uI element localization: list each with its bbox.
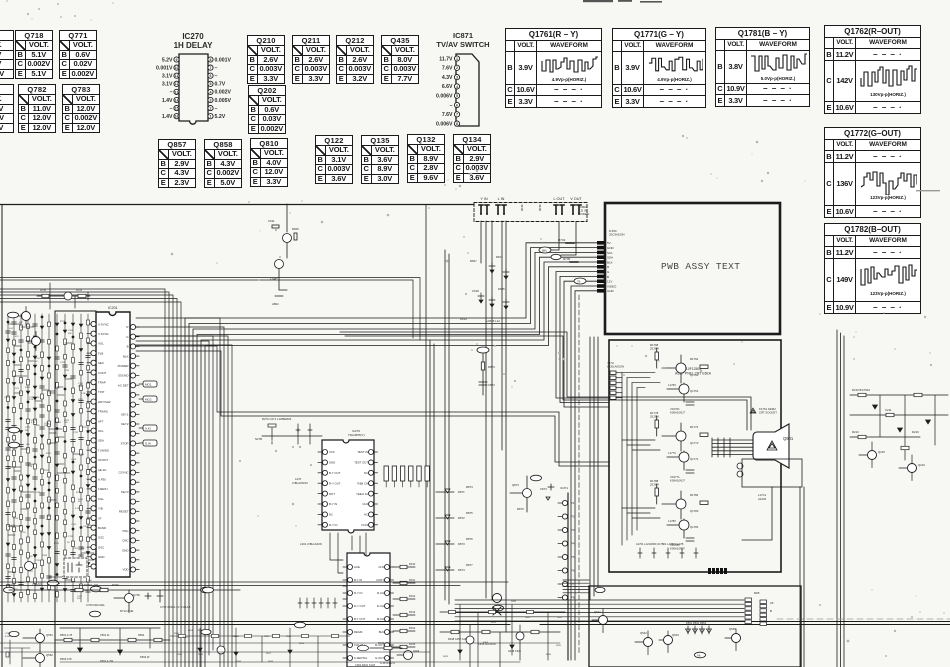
svg-text:Q562: Q562: [46, 653, 53, 657]
bottom strip cluster middle: [355, 640, 420, 667]
wire left board outline: [2, 205, 96, 667]
svg-text:R875: R875: [466, 511, 473, 515]
svg-text:100: 100: [77, 598, 81, 600]
svg-text:–: –: [170, 106, 173, 112]
svg-text:GND: GND: [122, 548, 128, 552]
wire top boundary rail: [0, 204, 474, 206]
svg-text:D871: D871: [458, 490, 465, 494]
svg-text:H498 C321: H498 C321: [508, 649, 522, 653]
waveform table Q1762(R-OUT): [824, 25, 921, 114]
svg-text:R879: R879: [517, 507, 524, 511]
svg-text:HDY/SH2: HDY/SH2: [98, 400, 111, 404]
svg-text:Q215: Q215: [878, 450, 885, 454]
svg-text:C704: C704: [12, 448, 18, 450]
svg-text:5.2V: 5.2V: [162, 57, 173, 63]
svg-text:R561 A.78: R561 A.78: [60, 633, 73, 637]
svg-text:C712: C712: [46, 424, 52, 426]
connector J601 (video in/out jacks, dashed outline): [474, 197, 590, 222]
voltage table Q810: [250, 138, 288, 187]
svg-text:D614: D614: [460, 317, 467, 321]
svg-text:R771: R771: [76, 492, 82, 494]
svg-text:C712: C712: [71, 524, 77, 526]
svg-text:TEST OUT: TEST OUT: [354, 461, 368, 465]
svg-text:D-CH: D-CH: [377, 604, 384, 608]
svg-text:K09A10NJ7: K09A10NJ7: [670, 479, 685, 483]
bottom strip cluster left-middle: [170, 628, 350, 667]
svg-text:SCL: SCL: [98, 429, 104, 433]
svg-text:1K: 1K: [37, 397, 40, 399]
svg-text:Q404: Q404: [413, 649, 420, 653]
svg-text:13: 13: [175, 90, 179, 94]
svg-text:BLK: BLK: [607, 260, 613, 264]
svg-text:YEEH 1A: YEEH 1A: [356, 492, 368, 496]
svg-text:R315: R315: [409, 642, 416, 646]
svg-text:R752: R752: [46, 453, 52, 455]
svg-text:KILL: KILL: [98, 497, 104, 501]
svg-text:–: –: [215, 65, 218, 71]
svg-text:3.1V: 3.1V: [162, 74, 173, 80]
svg-text:NC: NC: [364, 471, 368, 475]
bottom strip transistor Q561: [9, 629, 53, 651]
svg-text:BLK: BLK: [379, 630, 384, 634]
svg-text:25J3W: 25J3W: [650, 483, 659, 487]
svg-text:470: 470: [15, 336, 19, 338]
svg-text:R722: R722: [78, 399, 84, 401]
transistor Q543: [659, 631, 679, 653]
svg-text:8: 8: [210, 58, 212, 62]
svg-text:D561 A.7W: D561 A.7W: [100, 659, 114, 663]
svg-text:A6: A6: [697, 654, 701, 658]
svg-text:A5: A5: [770, 601, 774, 605]
svg-text:16: 16: [175, 115, 179, 119]
svg-text:C731: C731: [64, 370, 70, 372]
svg-text:D562 W: D562 W: [140, 655, 150, 659]
svg-text:L701: L701: [21, 532, 26, 534]
svg-text:+D605 L12: +D605 L12: [486, 319, 500, 323]
voltage table Q135: [361, 135, 399, 184]
IC270 1H delay pinout: [156, 32, 231, 124]
svg-text:IC371: IC371: [560, 486, 568, 490]
svg-text:D605: D605: [498, 287, 505, 291]
voltage table Q435: [381, 35, 419, 84]
voltage table Q132: [407, 134, 445, 183]
svg-text:R817: R817: [496, 255, 503, 259]
junction dots row CRT board bottom: [708, 568, 727, 574]
transistor Q703: [26, 332, 41, 351]
waveform table Q1771(G-Y): [612, 28, 706, 108]
bottom-right board outline: [589, 586, 801, 667]
svg-text:5V: 5V: [607, 241, 611, 245]
node pill P76 with resistor chain: [477, 347, 495, 395]
svg-text:K09A10NJ7: K09A10NJ7: [670, 547, 685, 551]
bias network right of CRT board: [850, 388, 948, 460]
svg-text:0.001V: 0.001V: [156, 65, 173, 71]
svg-text:AC DET: AC DET: [118, 383, 129, 387]
svg-text:R415: R415: [556, 645, 562, 647]
voltage table Q782: [18, 84, 56, 133]
svg-text:A1761 L1213CB4 K17B01 L17BP0 A: A1761 L1213CB4 K17B01 L17BP0 A17B: [636, 542, 684, 546]
resistor R743 and R745 labels: [558, 238, 578, 262]
svg-text:R762: R762: [56, 422, 62, 424]
svg-text:D561 R562 D563: D561 R562 D563: [686, 621, 707, 625]
voltage table Q771: [59, 30, 97, 79]
svg-text:C731: C731: [13, 518, 19, 520]
svg-text:1.4V: 1.4V: [162, 114, 173, 120]
svg-text:C731: C731: [68, 536, 74, 538]
svg-text:MO1: MO1: [145, 383, 152, 387]
svg-text:4: 4: [456, 85, 458, 89]
svg-text:–: –: [450, 103, 453, 109]
svg-text:REGM: REGM: [354, 630, 363, 634]
svg-text:SCL: SCL: [607, 251, 613, 255]
svg-text:R498 C457 A104: R498 C457 A104: [448, 637, 468, 641]
svg-text:L701: L701: [35, 358, 40, 360]
svg-text:A.P30: A.P30: [98, 478, 106, 482]
svg-text:SEC: SEC: [98, 361, 104, 365]
svg-text:IC201: IC201: [108, 306, 118, 310]
voltage table (partial, left edge, row 2): [0, 84, 14, 133]
svg-text:VC23: VC23: [361, 523, 368, 527]
svg-text:15: 15: [175, 107, 179, 111]
IC270 TDA4565 block: [292, 429, 378, 533]
svg-text:Q1782: Q1782: [690, 509, 699, 513]
svg-text:C741: C741: [60, 362, 66, 364]
svg-text:KEY3: KEY3: [121, 490, 129, 494]
wire bundle from CN601 staircase: [185, 243, 609, 667]
svg-text:Q1772: Q1772: [690, 441, 699, 445]
svg-text:R213: R213: [852, 430, 859, 434]
PWB assembly outline box: [605, 203, 780, 334]
svg-text:TEST IN: TEST IN: [357, 450, 368, 454]
svg-text:2SC9A103N: 2SC9A103N: [609, 233, 625, 237]
svg-text:Q216: Q216: [918, 463, 925, 467]
svg-text:C704: C704: [79, 454, 85, 456]
voltage table Q134: [453, 134, 491, 183]
IC201 microcontroller: [87, 306, 139, 577]
voltage table Q858: [204, 139, 242, 188]
svg-text:8: 8: [456, 122, 458, 126]
svg-text:A.KI: A.KI: [145, 427, 151, 431]
svg-text:C/BLA0SON: C/BLA0SON: [292, 481, 308, 485]
svg-text:VIDEO: VIDEO: [580, 212, 590, 216]
CRT drive amplifier cluster 2 (Q1772): [650, 411, 708, 483]
svg-text:5: 5: [210, 82, 212, 86]
svg-text:IC270: IC270: [182, 32, 204, 41]
svg-text:R561: R561: [188, 630, 194, 632]
svg-text:C211: C211: [885, 408, 892, 412]
wire bundle horizontal rails upper left: [0, 278, 420, 667]
svg-text:C707 A2001.1V K13L1B: C707 A2001.1V K13L1B: [160, 605, 190, 609]
crystal X201 dashed box: [25, 557, 89, 578]
svg-text:C731: C731: [35, 560, 41, 562]
svg-text:L701: L701: [28, 571, 33, 573]
svg-text:Y IN: Y IN: [480, 197, 488, 201]
svg-text:R762: R762: [25, 387, 31, 389]
svg-text:R455: R455: [525, 617, 531, 619]
diode column D871-D874: [436, 485, 473, 572]
waveform table Q1781(B-Y): [715, 27, 810, 107]
svg-text:HUE: HUE: [354, 565, 360, 569]
svg-text:25J3W: 25J3W: [650, 347, 659, 351]
svg-text:A894: A894: [272, 302, 279, 306]
svg-text:GND: GND: [607, 289, 615, 293]
svg-text:25J3W: 25J3W: [650, 415, 659, 419]
svg-text:33K: 33K: [25, 430, 29, 432]
svg-text:R745: R745: [563, 257, 571, 261]
svg-text:R-Y IN: R-Y IN: [329, 523, 337, 527]
svg-text:R: R: [607, 265, 610, 269]
svg-text:R494: R494: [546, 654, 552, 656]
svg-text:–: –: [215, 106, 218, 112]
svg-text:Q1761: Q1761: [690, 389, 699, 393]
svg-text:0.005V: 0.005V: [215, 98, 232, 104]
voltage table Q718: [15, 30, 53, 79]
svg-text:–: –: [215, 74, 218, 80]
IC371 pin column: [558, 486, 575, 660]
svg-text:10: 10: [175, 66, 179, 70]
svg-text:100: 100: [29, 556, 33, 558]
svg-text:R708: R708: [42, 555, 48, 557]
svg-text:R566: R566: [177, 654, 183, 656]
svg-text:0.7V: 0.7V: [215, 82, 226, 88]
resistor/capacitor field left of IC201: [6, 314, 94, 602]
svg-text:R567: R567: [183, 637, 189, 639]
svg-text:SOUND: SOUND: [118, 374, 128, 378]
svg-text:6: 6: [210, 74, 212, 78]
waveform table Q1782(B-OUT): [824, 223, 921, 314]
svg-text:Q542: Q542: [640, 631, 647, 635]
svg-text:TRANS: TRANS: [98, 410, 108, 414]
transistor Q215 right: [859, 442, 885, 468]
svg-text:POWER: POWER: [118, 364, 129, 368]
svg-text:1K: 1K: [67, 542, 70, 544]
svg-text:GND: GND: [98, 555, 104, 559]
svg-text:2.2K: 2.2K: [78, 386, 83, 388]
voltage table Q212: [336, 35, 374, 84]
svg-text:B: B: [770, 609, 772, 613]
wire video signal verticals: [481, 221, 576, 632]
svg-text:P7: P7: [571, 582, 575, 586]
wire links IC270 to IC301: [330, 533, 366, 599]
svg-text:R562: R562: [138, 633, 145, 637]
faint dashed rail right: [777, 618, 950, 620]
wire bottom board boundary rails: [0, 582, 950, 625]
svg-text:SDA: SDA: [98, 439, 104, 443]
svg-text:R-Y OUT: R-Y OUT: [329, 481, 341, 485]
transistor Q216 right: [899, 455, 925, 481]
svg-text:CSYNC: CSYNC: [118, 471, 128, 475]
svg-text:VCC: VCC: [329, 450, 335, 454]
svg-text:R527: R527: [266, 653, 272, 655]
svg-text:1/G6LA0SON: 1/G6LA0SON: [607, 365, 624, 369]
svg-text:P2: P2: [571, 515, 575, 519]
svg-text:R716: R716: [87, 393, 93, 395]
svg-text:R439: R439: [511, 601, 517, 603]
svg-text:R310: R310: [409, 562, 416, 566]
CRT board outline box: [609, 340, 781, 572]
svg-text:P4: P4: [571, 542, 575, 546]
svg-text:2: 2: [456, 66, 458, 70]
transistor chain top right of IC201 area: [268, 204, 299, 306]
svg-text:0.01: 0.01: [9, 328, 14, 330]
svg-text:C561 11: C561 11: [100, 633, 110, 637]
svg-text:R873: R873: [488, 365, 495, 369]
svg-text:3: 3: [456, 76, 458, 80]
svg-text:B-CH: B-CH: [377, 617, 384, 621]
svg-text:V-SYNC: V-SYNC: [98, 332, 109, 336]
bottom strip wires horizontal: [0, 643, 560, 662]
svg-text:R314: R314: [409, 626, 416, 630]
svg-text:CONT: CONT: [98, 371, 106, 375]
svg-text:R420: R420: [557, 617, 563, 619]
voltage table Q210: [247, 35, 285, 84]
bottom strip transistor Q562: [23, 650, 53, 667]
svg-text:1: 1: [210, 115, 212, 119]
svg-text:7.6V: 7.6V: [442, 112, 453, 118]
svg-text:R565: R565: [286, 636, 292, 638]
svg-text:1K: 1K: [35, 361, 38, 363]
waveform table Q1761(R-Y): [505, 28, 602, 108]
waveform table Q1772(G-OUT): [824, 127, 921, 218]
svg-text:KEY1: KEY1: [121, 413, 129, 417]
spark gap row bottom of CRT board: [636, 542, 698, 558]
svg-text:R: R: [126, 325, 128, 329]
svg-text:R703: R703: [76, 289, 83, 292]
svg-text:FLB: FLB: [98, 351, 103, 355]
svg-text:R564 A78: R564 A78: [60, 657, 72, 661]
svg-text:P6: P6: [571, 569, 575, 573]
svg-text:R709: R709: [112, 583, 119, 587]
svg-text:4: 4: [210, 90, 212, 94]
svg-text:BAND: BAND: [98, 526, 106, 530]
svg-text:2.2K: 2.2K: [81, 393, 86, 395]
wire rails inside CRT board: [622, 373, 660, 545]
svg-text:R210 B1/T910: R210 B1/T910: [852, 388, 870, 392]
svg-text:OSC: OSC: [98, 545, 104, 549]
svg-text:R771: R771: [82, 427, 88, 429]
svg-text:1K: 1K: [78, 501, 81, 503]
svg-text:L1760: L1760: [668, 383, 676, 387]
svg-text:0.002V: 0.002V: [215, 90, 232, 96]
svg-text:0.001V: 0.001V: [215, 57, 232, 63]
svg-text:GND: GND: [607, 246, 615, 250]
voltage table Q122: [315, 135, 353, 184]
svg-text:–: –: [170, 90, 173, 96]
wire bundle into bottom-right board: [455, 580, 744, 621]
option label boxes right of IC201: [139, 381, 157, 446]
svg-text:R705: R705: [40, 289, 47, 292]
transistor Q873 cluster: [510, 475, 554, 512]
svg-text:R712 A.3E: R712 A.3E: [120, 609, 134, 613]
diode/resistor cluster on video lines: [460, 255, 509, 323]
svg-text:SDA: SDA: [607, 256, 613, 260]
svg-text:Q1771: Q1771: [690, 457, 699, 461]
component chain right of IC301: [393, 562, 416, 649]
svg-text:MO2: MO2: [145, 398, 152, 402]
svg-text:R270 C271 L10/BER26: R270 C271 L10/BER26: [262, 417, 292, 421]
svg-text:R1782: R1782: [690, 493, 699, 497]
pill node A6 bottom right: [695, 652, 706, 658]
svg-text:VOL: VOL: [98, 342, 104, 346]
svg-text:R524: R524: [197, 630, 203, 632]
svg-text:AE 2H: AE 2H: [98, 468, 106, 472]
connector Y47A pin strip: [607, 361, 624, 399]
svg-text:G: G: [607, 270, 610, 274]
svg-text:Q541: Q541: [594, 610, 601, 614]
svg-text:R771: R771: [60, 321, 66, 323]
transistor Q545: [725, 627, 741, 651]
svg-text:4.7K: 4.7K: [75, 508, 80, 510]
svg-text:PWB ASSY TEXT: PWB ASSY TEXT: [661, 261, 740, 272]
IC301 chroma block: [300, 542, 394, 667]
component reference labels field: [4, 321, 93, 600]
svg-text:R874: R874: [466, 485, 473, 489]
svg-text:VT: VT: [98, 516, 102, 520]
CRT drive amplifier cluster 3 (Q1782): [650, 479, 708, 551]
svg-text:12V: 12V: [607, 280, 612, 284]
bottom strip RC cluster left: [55, 628, 170, 663]
svg-text:L701: L701: [14, 388, 19, 390]
svg-text:12: 12: [175, 82, 179, 86]
svg-text:R&B CH: R&B CH: [357, 481, 368, 485]
svg-text:R313: R313: [409, 610, 416, 614]
svg-text:R-CH: R-CH: [377, 591, 384, 595]
svg-text:R827: R827: [470, 259, 477, 263]
svg-text:1.4V: 1.4V: [162, 98, 173, 104]
svg-text:33K: 33K: [81, 548, 85, 550]
svg-text:SCONT: SCONT: [98, 458, 108, 462]
diode row bottom right: [686, 621, 712, 634]
svg-text:100: 100: [64, 422, 68, 424]
svg-text:R722: R722: [44, 470, 50, 472]
svg-text:R1762: R1762: [690, 357, 699, 361]
svg-text:BLK: BLK: [123, 354, 129, 358]
svg-text:TDA4565(Y): TDA4565(Y): [348, 433, 365, 437]
svg-text:L IN: L IN: [498, 197, 505, 201]
svg-text:7: 7: [210, 66, 212, 70]
svg-text:NC: NC: [329, 513, 333, 517]
svg-text:D210: D210: [912, 430, 919, 434]
svg-text:2: 2: [210, 107, 212, 111]
svg-text:3.1V: 3.1V: [162, 82, 173, 88]
transistor Q541: [592, 587, 608, 632]
svg-text:OSC: OSC: [122, 539, 128, 543]
svg-text:C004 R401 K13X: C004 R401 K13X: [355, 663, 375, 667]
focus block box under CRT: [742, 459, 802, 540]
svg-text:Y/B: Y/B: [98, 507, 103, 511]
svg-text:C611: C611: [268, 219, 275, 223]
svg-text:TUNING: TUNING: [98, 448, 110, 452]
cluster above IC201: [37, 283, 90, 309]
voltage table Q211: [292, 35, 330, 84]
svg-text:R876: R876: [466, 537, 473, 541]
svg-text:R-Y OUT: R-Y OUT: [354, 604, 366, 608]
svg-text:Q543: Q543: [672, 633, 679, 637]
svg-text:7: 7: [456, 113, 458, 117]
bottom strip cluster center-right: [440, 625, 560, 667]
svg-text:P5: P5: [571, 555, 575, 559]
svg-text:L1770: L1770: [668, 451, 676, 455]
svg-text:Q561: Q561: [46, 633, 53, 637]
svg-text:VDD: VDD: [122, 568, 128, 572]
svg-text:R594: R594: [198, 654, 204, 656]
bottom strip ticks x300-345: [298, 598, 337, 608]
RC cluster above IC270: [255, 417, 322, 444]
svg-text:R474: R474: [491, 622, 497, 624]
svg-text:KEY2: KEY2: [121, 422, 129, 426]
svg-text:5.2V: 5.2V: [215, 114, 226, 120]
svg-text:N27B: N27B: [255, 437, 262, 441]
